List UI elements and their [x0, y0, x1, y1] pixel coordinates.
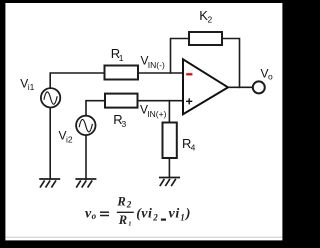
red minus (inverting input mark): [186, 73, 192, 75]
svg-text:R: R: [118, 213, 127, 227]
wire op-amp output to Vo: [228, 86, 253, 88]
svg-text:3: 3: [122, 119, 127, 129]
wire R3 to op-amp non-inverting input: [138, 100, 184, 102]
svg-text:IN(-): IN(-): [148, 60, 165, 70]
faint rule near bottom: [5, 236, 282, 238]
wire Vi2 bottom to ground: [85, 134, 87, 179]
output terminal Vo: [253, 67, 273, 94]
svg-text:1: 1: [128, 221, 131, 228]
source Vi1: [20, 77, 60, 108]
svg-text:o: o: [92, 211, 97, 221]
wire R4 to ground: [168, 158, 170, 178]
wire Vi1 bottom to ground: [49, 107, 51, 179]
wire node VIN+ down to R4: [168, 101, 170, 123]
wire feedback left leg (node VIN- up to K2): [171, 39, 190, 74]
wire feedback right leg (K2 down to output): [222, 39, 240, 88]
svg-text:1: 1: [180, 212, 185, 222]
svg-text:2: 2: [208, 15, 213, 25]
node VIN(-) label: [141, 54, 165, 71]
resistor R4 (vertical): [163, 123, 196, 159]
plus (non-inverting input mark): [186, 98, 192, 104]
ground under R4: [159, 178, 180, 187]
ground under Vi1: [39, 179, 60, 188]
ground under Vi2: [75, 179, 96, 188]
svg-text:o: o: [268, 72, 273, 82]
op-amp U1: [183, 59, 228, 114]
svg-text:IN(+): IN(+): [147, 109, 166, 119]
svg-text:i2: i2: [66, 134, 73, 144]
svg-text:2: 2: [152, 212, 158, 222]
svg-text:vi: vi: [169, 206, 180, 221]
svg-text:R: R: [116, 195, 125, 209]
formula vo = R2/R1 (vi2 - vi1): [85, 195, 190, 228]
node VIN(+) label: [140, 103, 167, 120]
source Vi2: [59, 116, 96, 145]
resistor R3: [105, 94, 138, 129]
wire Vi1 to R1: [50, 73, 104, 89]
resistor K2 (feedback): [189, 8, 222, 45]
wire Vi2 to R3: [86, 101, 105, 116]
svg-text:1: 1: [119, 53, 124, 63]
resistor R1: [105, 46, 139, 80]
wire R1 to op-amp inverting input: [138, 72, 183, 74]
svg-text:vi: vi: [141, 206, 152, 221]
svg-text:i1: i1: [28, 82, 35, 92]
svg-text:2: 2: [126, 199, 132, 209]
svg-text:4: 4: [191, 143, 196, 153]
